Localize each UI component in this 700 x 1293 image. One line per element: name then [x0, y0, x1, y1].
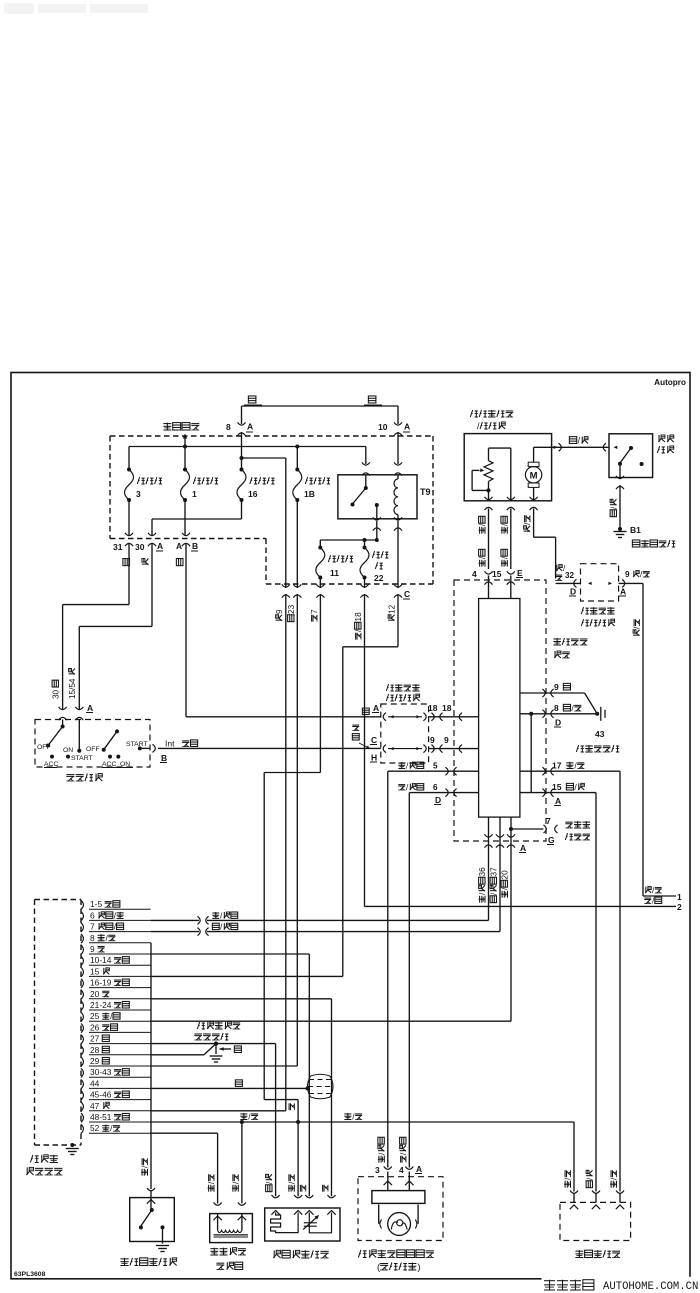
ignition switch box — [35, 720, 150, 768]
fuse box1 dashed box — [381, 704, 429, 763]
wire row CH to computer — [429, 745, 479, 753]
label 白/棕 right — [344, 1112, 362, 1122]
inertia out connector — [616, 476, 624, 489]
svg-text:A: A — [404, 422, 410, 432]
svg-text:15: 15 — [552, 782, 562, 792]
wire pin4 entry — [488, 576, 490, 599]
svg-text:9: 9 — [554, 682, 559, 692]
label 深蓝 pointer — [352, 725, 370, 748]
connector 8-A — [226, 422, 253, 436]
label 白/棕 left — [240, 1112, 258, 1122]
svg-text:18: 18 — [428, 703, 438, 713]
svg-text:E: E — [517, 568, 523, 578]
svg-text:D: D — [570, 587, 576, 597]
label 白/棕 canister — [231, 1174, 240, 1191]
canister connectors — [214, 1203, 246, 1206]
row A connectors — [383, 713, 426, 721]
label 仪表板下保险丝盒 #2 — [581, 607, 614, 626]
svg-text:B: B — [161, 753, 167, 763]
row6 label — [398, 783, 441, 805]
svg-text:4: 4 — [472, 569, 477, 579]
canister internals — [213, 1214, 248, 1237]
wire fuse3 out — [128, 500, 130, 535]
label 白/绿 canister — [207, 1174, 216, 1191]
svg-text:20: 20 — [90, 989, 100, 999]
node 8A junction — [240, 456, 244, 460]
row CH connectors — [383, 745, 426, 753]
svg-text:30: 30 — [52, 689, 61, 699]
fuse F1B — [293, 468, 330, 503]
mil lamp circle — [379, 1205, 418, 1236]
wire red23 down — [296, 594, 298, 1066]
label 红 wire color (right) — [364, 396, 382, 405]
svg-text:20: 20 — [501, 870, 510, 880]
label 发动机控制模块接地 — [194, 1022, 240, 1040]
wire fuse11 out — [319, 578, 321, 589]
svg-text:6: 6 — [90, 910, 95, 920]
wire label 红 31 — [123, 559, 130, 566]
svg-text:A: A — [620, 587, 626, 597]
svg-text:23: 23 — [287, 604, 296, 614]
label 点火开关 — [66, 774, 102, 781]
svg-text:D: D — [435, 795, 441, 805]
label 数据传送接头 — [565, 821, 590, 840]
mil dashed box — [358, 1177, 443, 1241]
row CH out pair — [430, 735, 449, 753]
label 黑/紫 vss — [586, 1170, 595, 1187]
wire pin47 orange — [151, 1110, 286, 1112]
label 电磁阀 — [216, 1262, 242, 1269]
svg-text:10: 10 — [378, 422, 388, 432]
connector A-B — [176, 533, 198, 551]
svg-text:1: 1 — [677, 892, 682, 902]
fuse F1 — [181, 468, 218, 503]
svg-text:9: 9 — [275, 609, 284, 614]
row 9 black — [520, 682, 597, 714]
label B1 — [630, 525, 641, 535]
fuse F11 — [316, 546, 353, 580]
wire fuse1B out — [296, 500, 298, 588]
label 发动机故障指示灯 — [358, 1250, 433, 1258]
wire pin44 black — [151, 1080, 310, 1091]
wire 9A connector — [608, 579, 643, 587]
svg-text:18: 18 — [354, 612, 363, 622]
svg-text:26: 26 — [90, 1022, 100, 1032]
svg-text:H: H — [371, 753, 377, 763]
svg-text:D: D — [555, 718, 561, 728]
body computer dashed box — [454, 580, 546, 841]
wire fuse3 top — [128, 447, 130, 470]
relay coil — [394, 475, 398, 519]
svg-text:A: A — [157, 541, 163, 551]
svg-text:22: 22 — [374, 573, 384, 583]
wire purple-yellow to 32D — [534, 509, 556, 579]
wire fuse16 out jog — [152, 500, 242, 535]
svg-text:37: 37 — [490, 867, 499, 877]
svg-text:27: 27 — [90, 1034, 100, 1044]
svg-text:G: G — [548, 835, 555, 845]
label 白/玫红 mil — [377, 1137, 386, 1162]
svg-text:A: A — [520, 843, 526, 853]
wire Int blue — [158, 747, 381, 749]
svg-text:21-24: 21-24 — [90, 1000, 112, 1010]
wire stub 1 — [643, 886, 682, 902]
svg-text:AUTOHOME.COM.CN: AUTOHOME.COM.CN — [603, 1281, 698, 1293]
svg-text:15/54: 15/54 — [68, 678, 77, 699]
svg-text:T9: T9 — [420, 487, 431, 497]
label 发动机控制模块 — [26, 1155, 62, 1175]
svg-text:25: 25 — [90, 1011, 100, 1021]
svg-text:36: 36 — [478, 867, 487, 877]
row A out pair — [428, 703, 452, 721]
label T9 — [420, 487, 431, 497]
exit connectors bottom of fuse box — [282, 584, 410, 599]
svg-text:A: A — [555, 796, 561, 806]
wire relay switch out — [375, 521, 379, 542]
watermark AUTOHOME.COM.CN — [603, 1281, 698, 1293]
fuse F3 — [125, 468, 162, 503]
label 白/红 20 — [501, 870, 510, 898]
svg-text:C: C — [371, 735, 377, 745]
inertia contacts — [618, 446, 644, 478]
svg-text:9: 9 — [444, 735, 449, 745]
fuse box2 dashed — [581, 564, 619, 601]
shield bundle ellipse — [308, 1074, 334, 1099]
svg-text:9: 9 — [625, 570, 630, 579]
label 惯性开关 — [657, 435, 673, 453]
fuel pump motor — [525, 447, 541, 501]
wire pin20 yellow — [151, 999, 332, 1197]
label 紫/黄 32 — [555, 564, 574, 581]
wire pin7 — [151, 923, 500, 936]
svg-text:OFF: OFF — [37, 744, 51, 751]
wire fuse1 top — [184, 447, 186, 470]
wire o2 heater ground — [216, 1044, 276, 1197]
wire brownblack18 down — [364, 594, 366, 906]
svg-text:ACC: ACC — [44, 761, 58, 768]
wire label 30 红 — [52, 680, 61, 699]
wire stub 2 — [365, 897, 683, 913]
fuse F16 — [237, 468, 274, 503]
ECM bottom ground — [66, 1143, 79, 1155]
svg-text:30: 30 — [135, 542, 145, 552]
svg-text:A: A — [247, 422, 253, 432]
svg-text:1: 1 — [192, 489, 197, 499]
row CH labels — [370, 735, 377, 763]
bus bar rect — [479, 599, 520, 818]
wire pin29 red — [151, 1065, 298, 1067]
fuse box dashed outline — [110, 436, 433, 584]
svg-text:3: 3 — [375, 1165, 380, 1175]
svg-text:63PL3608: 63PL3608 — [14, 1271, 46, 1278]
wire label 橙 30 — [142, 559, 149, 565]
wire orange9 down — [285, 594, 287, 1111]
svg-text:31: 31 — [113, 542, 123, 552]
wire pin6 — [151, 911, 489, 924]
label 9 紫/黄 — [625, 570, 650, 579]
row 8 black-yellow — [520, 703, 599, 728]
label (组合仪表) — [377, 1262, 421, 1273]
relay input connectors — [362, 462, 402, 475]
row 15 black-purple — [520, 782, 596, 806]
label 机油压力开关 — [120, 1258, 176, 1266]
wire pin27 black — [151, 1042, 218, 1046]
wire pin25 white-red — [151, 1020, 511, 1022]
svg-text:ON: ON — [63, 747, 73, 754]
fuel sender top wire — [489, 448, 511, 501]
wire bus drop to relay switch — [365, 447, 367, 465]
label 碳罐控制 — [210, 1248, 246, 1255]
wire row5 down — [387, 771, 389, 1167]
relay switch — [351, 475, 379, 519]
svg-text:48-51: 48-51 — [90, 1112, 112, 1122]
wire label 红 AB — [176, 559, 183, 566]
label 加热氧传感器 — [273, 1250, 328, 1258]
svg-text:4: 4 — [399, 1165, 404, 1175]
svg-text:28: 28 — [90, 1045, 100, 1055]
svg-text:8: 8 — [90, 933, 95, 943]
node dot 531 — [529, 712, 533, 793]
fuel sender resistor — [484, 448, 493, 501]
svg-text:OFF: OFF — [86, 746, 100, 753]
wire fuse1B top — [296, 447, 298, 470]
wire label 棕/黑 18 — [354, 612, 363, 640]
row 17 gray-green — [520, 761, 620, 776]
wire 32D connector — [556, 579, 592, 587]
svg-text:30-43: 30-43 — [90, 1067, 112, 1077]
canister box — [210, 1214, 253, 1243]
svg-text:ACC: ACC — [102, 761, 116, 768]
svg-text:START: START — [71, 755, 93, 762]
wire inertia to ground — [619, 485, 621, 528]
label 紫/黄 fuel — [523, 515, 532, 531]
svg-text:B1: B1 — [630, 525, 641, 535]
wire pin48 white-brown line — [151, 1120, 574, 1124]
svg-text:1-5: 1-5 — [90, 899, 102, 909]
bus wire top — [129, 445, 366, 449]
svg-text:52: 52 — [90, 1123, 100, 1133]
wire label 紫 12 — [388, 604, 397, 620]
svg-text:3: 3 — [136, 489, 141, 499]
ignition connector A — [59, 703, 94, 720]
label 绿 o2 — [300, 1185, 305, 1192]
wire label 棕 7 — [310, 609, 319, 622]
wire label 橙 9 — [275, 609, 284, 621]
bus bottom wires — [489, 817, 512, 1021]
label 一直通电 — [163, 423, 199, 430]
ECM pin rows text — [81, 899, 151, 1133]
bus bottom connectors — [485, 834, 527, 853]
label 红 wire color (left) — [244, 396, 262, 405]
wire 10A drop — [397, 432, 399, 464]
border frame — [11, 373, 690, 1279]
ignition right contacts — [86, 729, 148, 768]
svg-text:9: 9 — [430, 735, 435, 745]
svg-text:): ) — [417, 1262, 420, 1273]
wire to fuses 11 22 — [320, 538, 377, 548]
svg-text:15: 15 — [90, 966, 100, 976]
label 43 — [595, 729, 605, 739]
label A 9 — [619, 587, 626, 597]
wire pin20 drop label none — [0, 0, 1, 1]
svg-text:8: 8 — [226, 422, 231, 432]
svg-text:47: 47 — [90, 1101, 100, 1111]
connector 10-A — [378, 422, 410, 436]
svg-text:A: A — [176, 541, 182, 551]
svg-text:1B: 1B — [304, 489, 315, 499]
relay output connectors — [373, 517, 402, 530]
wire 31 to ignition — [63, 543, 129, 710]
wire fuse1 out — [184, 500, 186, 535]
svg-text:43: 43 — [595, 729, 605, 739]
wire 17 down — [619, 771, 621, 1191]
oil switch contacts — [139, 1191, 165, 1244]
svg-text:8: 8 — [554, 703, 559, 713]
wire pin15 purple — [151, 975, 343, 977]
label 黑/紫 inertia — [610, 499, 619, 516]
watermark white backing — [542, 1277, 700, 1293]
svg-text:2: 2 — [677, 902, 682, 912]
svg-text:A: A — [373, 703, 379, 713]
pin 4 15 E connectors — [472, 568, 523, 585]
wire 8A drop — [241, 432, 243, 470]
label 黑/玫红 37 — [490, 867, 499, 903]
svg-text:32: 32 — [565, 571, 575, 580]
mil connectors — [375, 1164, 422, 1185]
ground 43 dash — [601, 707, 605, 721]
label 中央后接地 — [632, 540, 675, 547]
relay T9 box — [338, 475, 417, 519]
label 白/玫红 36 — [478, 867, 487, 903]
wire white-black pin15 — [510, 509, 512, 570]
o2 sensor box — [265, 1208, 340, 1241]
faint top watermark — [4, 3, 148, 14]
svg-text:START: START — [126, 741, 148, 748]
connector 31 — [113, 533, 133, 552]
svg-text:7: 7 — [310, 609, 319, 614]
svg-text:M: M — [530, 470, 538, 481]
svg-text:10-14: 10-14 — [90, 955, 112, 965]
label 棕 jog — [289, 1103, 294, 1110]
svg-text:44: 44 — [90, 1078, 100, 1088]
wire canister pin2 down — [241, 1123, 243, 1204]
oil switch connector — [147, 1188, 155, 1191]
wire white-brown bend down — [573, 1122, 575, 1192]
wire 15 down — [595, 793, 597, 1192]
svg-text:29: 29 — [90, 1056, 100, 1066]
svg-text:11: 11 — [330, 568, 339, 578]
label 灰/黄 — [141, 1158, 150, 1175]
svg-text:ON: ON — [120, 761, 130, 768]
ECM dashed connector strip — [35, 900, 82, 1146]
svg-text:15: 15 — [492, 569, 502, 579]
drawing number 63PL3608 — [14, 1271, 46, 1278]
mil base rect — [372, 1191, 425, 1204]
label 黄 o2 — [323, 1185, 328, 1192]
oil switch ground — [156, 1246, 169, 1252]
wire row6 down — [408, 793, 410, 1168]
ECM ground symbol — [210, 1042, 242, 1062]
row5 white-rose wire — [388, 767, 479, 775]
vss connectors — [570, 1191, 624, 1194]
wire pin9 green — [151, 954, 310, 1196]
connector 30-A — [135, 533, 163, 552]
svg-text:Autopro: Autopro — [654, 378, 686, 387]
wire brown7 down jog — [264, 594, 320, 1100]
fuel sender wiper — [472, 468, 488, 490]
wire purple-yellow down — [642, 583, 644, 896]
wire pin8 gray-yellow — [150, 943, 152, 1189]
label 白/棕 vss — [564, 1170, 573, 1187]
row6 brown-rose wire — [409, 789, 478, 797]
label 灰/绿 vss — [610, 1170, 619, 1187]
svg-text:C: C — [404, 589, 410, 599]
inertia switch box — [609, 434, 653, 478]
row 7 dlc — [509, 816, 558, 845]
wire purple12 down jog — [343, 594, 398, 976]
label 灰/红 x2 — [478, 516, 487, 566]
label 红/紫 — [569, 436, 588, 446]
svg-text:9: 9 — [90, 944, 95, 954]
svg-text:16-19: 16-19 — [90, 978, 112, 988]
label 紫/黄 vert — [633, 619, 642, 635]
o2 connectors — [272, 1195, 336, 1198]
svg-text:5: 5 — [433, 762, 438, 771]
vss entry wires — [570, 1193, 624, 1209]
label 白/棕 o2 — [287, 1174, 296, 1191]
row A red label — [362, 703, 379, 715]
o2 internals — [271, 1211, 336, 1233]
wire row A to computer — [429, 713, 479, 721]
wire AB red down — [186, 543, 381, 717]
svg-text:Int: Int — [165, 739, 175, 749]
fuel out connectors — [485, 497, 538, 510]
wire 30 to ignition — [79, 543, 152, 710]
ground B1 — [614, 527, 627, 538]
row5 label — [398, 762, 438, 771]
wire label 15/54 橙 — [68, 668, 77, 699]
wire red feed top — [242, 406, 399, 424]
label D 32 — [569, 587, 576, 597]
svg-text:6: 6 — [433, 783, 438, 792]
oil pressure switch box — [130, 1198, 175, 1242]
wire brown7 lower jog — [264, 1100, 298, 1197]
label 仪表板下 保险丝盒 #1 — [386, 684, 419, 701]
fuel pump feed wire — [534, 446, 552, 448]
ignition left contacts — [37, 720, 93, 769]
wire pin28 black — [151, 1044, 216, 1055]
svg-text:17: 17 — [552, 761, 562, 771]
svg-text:18: 18 — [442, 703, 452, 713]
wire label 红 23 — [287, 604, 296, 621]
label 黑/紫 o2 — [265, 1174, 274, 1191]
wire relay coil out — [397, 521, 399, 588]
fuel box — [464, 434, 551, 501]
label 棕/玫红 mil — [399, 1137, 408, 1162]
label 白/黑 x2 — [500, 516, 509, 566]
mil entry wires — [388, 1172, 410, 1191]
wire fuse22 out — [364, 578, 366, 589]
label 车速传感器 — [575, 1250, 620, 1257]
constant power arrow — [183, 434, 188, 447]
vss dashed box — [560, 1202, 631, 1240]
svg-text:7: 7 — [90, 922, 95, 932]
svg-text:45-46: 45-46 — [90, 1090, 112, 1100]
wire pin52 white-green — [151, 1133, 218, 1203]
svg-text:16: 16 — [248, 489, 258, 499]
svg-text:B: B — [192, 541, 198, 551]
fuse F22 — [360, 546, 388, 584]
